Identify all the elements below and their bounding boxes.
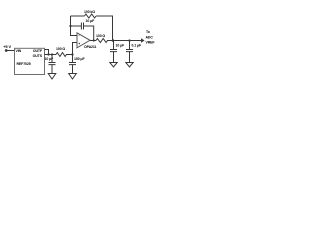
capacitor C5 bottom lead xyxy=(129,52,131,63)
junction feedback cap tap xyxy=(69,25,71,27)
junction out/cap xyxy=(93,39,95,41)
junction node2 xyxy=(71,53,73,55)
ground G2 xyxy=(69,74,77,80)
resistor R1 100ohm zigzag xyxy=(56,53,73,57)
wire OUTS to R1 xyxy=(45,54,57,56)
svg-text:10 μF: 10 μF xyxy=(45,57,55,61)
svg-text:VIN: VIN xyxy=(16,49,22,53)
svg-text:OUTS: OUTS xyxy=(33,54,43,58)
svg-text:100 Ω: 100 Ω xyxy=(56,47,65,51)
capacitor C2 plates xyxy=(69,63,76,65)
capacitor C4 bottom lead xyxy=(113,52,115,63)
resistor R3 100ohm zigzag xyxy=(96,39,141,43)
capacitor C5 0.1uF top lead xyxy=(129,41,131,50)
wire -in stub and left feedback vertical xyxy=(71,16,78,36)
ground G1 xyxy=(48,74,56,80)
svg-text:ADC: ADC xyxy=(146,35,154,39)
svg-text:+: + xyxy=(78,42,80,46)
wire 100k top right xyxy=(96,16,113,41)
svg-text:OUTF: OUTF xyxy=(33,49,43,53)
resistor R2 100k zigzag xyxy=(85,14,97,18)
svg-text:VREF: VREF xyxy=(146,40,156,44)
capacitor C1 10uF top lead xyxy=(51,55,53,63)
svg-text:To: To xyxy=(146,30,150,34)
wire cap branch right xyxy=(84,26,94,41)
capacitor C1 plates xyxy=(49,63,56,65)
svg-text:10 μF: 10 μF xyxy=(116,43,126,47)
wire node2 to op-amp +in xyxy=(73,43,78,55)
IC U1 REF7025 box xyxy=(15,48,45,74)
svg-text:+5 V: +5 V xyxy=(3,44,11,49)
capacitor C4 10uF top lead xyxy=(113,41,115,50)
arrow output xyxy=(141,38,145,42)
svg-text:150 μF: 150 μF xyxy=(74,57,85,61)
junction C1 tap xyxy=(51,53,53,55)
wire op-amp out xyxy=(90,40,96,42)
capacitor C2 150uF top lead xyxy=(72,55,74,63)
capacitor C1 bottom lead xyxy=(51,65,53,74)
wire 100k top left xyxy=(71,15,85,17)
svg-text:−: − xyxy=(78,34,80,38)
op-amp U2 triangle xyxy=(77,33,90,48)
svg-text:100 Ω: 100 Ω xyxy=(96,34,105,38)
junction feedback/C4 xyxy=(112,39,115,42)
ground G3 xyxy=(110,63,117,68)
svg-text:OPA211: OPA211 xyxy=(84,45,97,49)
capacitor C3 10uF plates xyxy=(81,23,83,30)
junction OUTF/OUTS xyxy=(47,53,49,55)
svg-text:100 kΩ: 100 kΩ xyxy=(84,10,95,14)
capacitor C5 plates xyxy=(126,50,133,52)
capacitor C2 bottom lead xyxy=(72,65,74,74)
node +5V terminal xyxy=(5,49,8,52)
wire cap branch left xyxy=(71,25,82,27)
ground G4 xyxy=(126,63,133,68)
junction C5 tap xyxy=(128,39,130,41)
wire +5V to VIN xyxy=(6,50,14,52)
svg-text:REF7025: REF7025 xyxy=(17,62,31,66)
svg-text:10 μF: 10 μF xyxy=(86,19,96,23)
wire OUTF jog xyxy=(45,50,49,55)
svg-text:0.1 μF: 0.1 μF xyxy=(132,43,142,47)
capacitor C4 plates xyxy=(110,50,117,52)
